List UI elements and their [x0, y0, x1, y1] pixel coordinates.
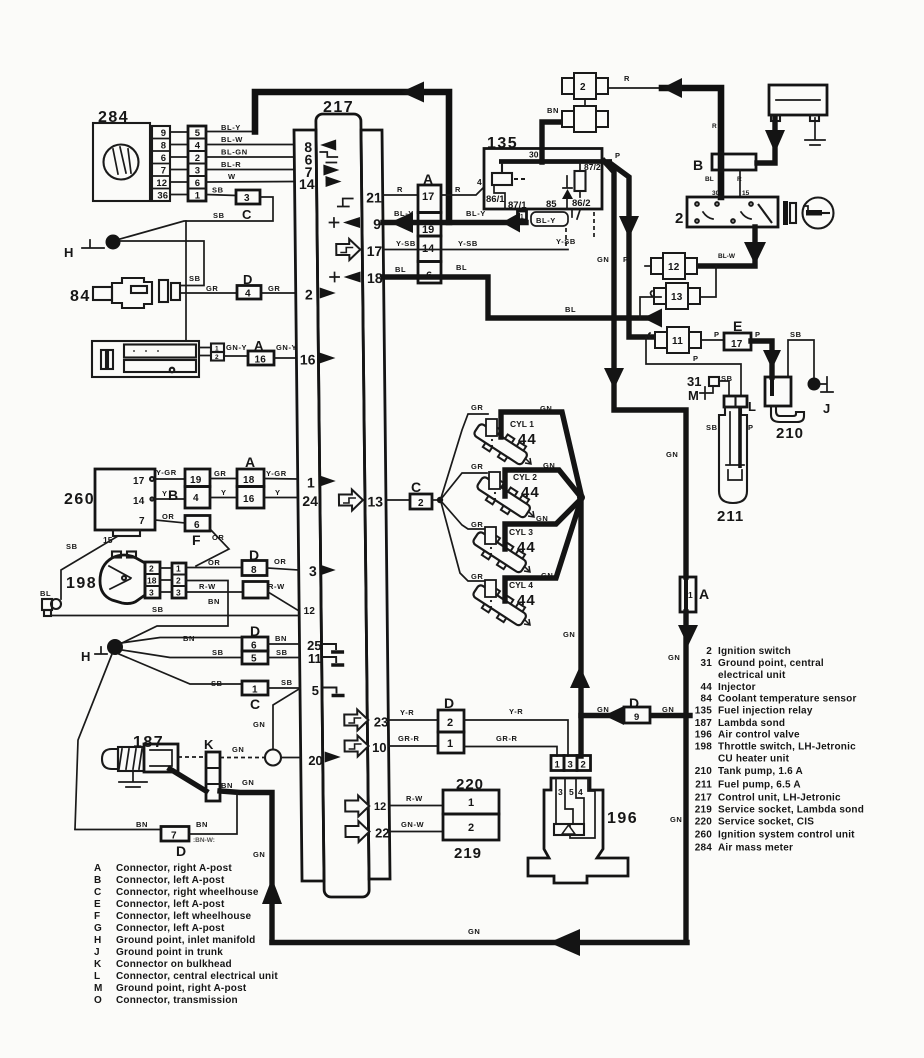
svg-text:BN: BN	[136, 820, 148, 829]
component legend right	[695, 646, 864, 854]
svg-text:P: P	[748, 423, 754, 432]
svg-text:GN: GN	[468, 927, 480, 936]
svg-text:H: H	[81, 649, 90, 664]
svg-text:SB: SB	[152, 605, 164, 614]
battery	[769, 85, 827, 121]
svg-text:1: 1	[176, 564, 181, 574]
arrow left on BL-Y top wire	[401, 82, 424, 103]
connector K on bulkhead	[204, 737, 220, 801]
svg-text:5: 5	[312, 683, 319, 698]
svg-text:BL-Y: BL-Y	[221, 123, 241, 132]
svg-text:GR-R: GR-R	[398, 734, 420, 743]
coolant temperature sensor 84 body	[93, 278, 180, 308]
svg-text:30: 30	[529, 150, 539, 160]
svg-text:13: 13	[367, 494, 383, 510]
svg-text:44: 44	[521, 484, 540, 501]
svg-text:4: 4	[195, 141, 201, 152]
wire SB M to connector L	[719, 381, 729, 396]
connector A strip right A-post	[418, 171, 441, 283]
svg-text:J: J	[823, 401, 830, 416]
svg-text:5: 5	[569, 787, 574, 797]
svg-text:84: 84	[70, 288, 91, 305]
grommet connector left	[40, 589, 61, 616]
wire Y 260 pin14	[155, 498, 185, 500]
svg-text:220: 220	[695, 817, 713, 828]
svg-text:BL: BL	[395, 265, 406, 274]
svg-text:L: L	[94, 971, 100, 982]
arrow down below fuse A	[678, 625, 698, 646]
thick wire BN lambda through K down to rail	[170, 769, 272, 942]
connector A boxes 18 16	[237, 454, 264, 508]
svg-text:219: 219	[695, 805, 713, 816]
svg-text:CYL 4: CYL 4	[509, 580, 533, 590]
injector 44 cylinder 3	[469, 527, 535, 578]
svg-text:18: 18	[367, 270, 383, 286]
svg-text:12: 12	[304, 606, 316, 617]
svg-text:11: 11	[672, 336, 683, 347]
in-line connector BN	[547, 106, 608, 132]
svg-text:OR: OR	[162, 512, 174, 521]
wire R pin21 to connector A	[383, 194, 418, 196]
connector D box GN	[624, 695, 650, 723]
svg-text:1: 1	[447, 738, 453, 750]
svg-text:OR: OR	[274, 557, 286, 566]
svg-text:Y-R: Y-R	[509, 707, 523, 716]
svg-text:7: 7	[139, 516, 145, 527]
svg-text:2: 2	[675, 210, 684, 227]
injector 44 cylinder 2	[473, 472, 539, 523]
svg-text:Tank pump, 1.6 A: Tank pump, 1.6 A	[718, 766, 803, 777]
svg-text:1: 1	[195, 191, 201, 202]
connector C box 3	[236, 190, 260, 222]
svg-text:211: 211	[695, 780, 712, 791]
svg-text:10: 10	[372, 740, 387, 755]
svg-text:BL-R: BL-R	[221, 160, 241, 169]
svg-text:9: 9	[373, 216, 381, 232]
wire H long diagonal to heater BN	[75, 654, 112, 829]
svg-text:E: E	[94, 899, 101, 910]
injector 44 cylinder 1	[470, 419, 536, 470]
arrow left at pin 9	[390, 212, 413, 233]
in-line connector 11	[649, 327, 702, 353]
svg-text:3: 3	[149, 588, 154, 598]
svg-text::BN-W:: :BN-W:	[193, 837, 215, 844]
connector D box 7	[161, 827, 189, 860]
svg-text:Fuel pump, 6.5 A: Fuel pump, 6.5 A	[718, 780, 801, 791]
wire BL-W pin8	[206, 144, 295, 146]
wire Y-GR 260 pin17 to connector B	[155, 478, 185, 480]
control unit 217 LH-Jetronic	[294, 114, 390, 897]
svg-text:1: 1	[688, 590, 693, 600]
wire GN-Y to connector A	[224, 355, 248, 357]
ground point H inlet manifold (top)	[64, 235, 121, 261]
svg-text:SB: SB	[211, 679, 223, 688]
svg-text:9: 9	[634, 712, 639, 723]
svg-text:23: 23	[374, 715, 389, 730]
svg-text:P: P	[714, 330, 720, 339]
ignition key connector	[783, 201, 796, 225]
svg-text:15: 15	[742, 190, 750, 197]
svg-text:BL: BL	[40, 589, 51, 598]
svg-text:Service socket, CIS: Service socket, CIS	[718, 817, 814, 828]
svg-text:Ground point, inlet manifold: Ground point, inlet manifold	[116, 935, 255, 946]
wire GN dashed lambda to K to node O	[178, 756, 265, 759]
svg-text:3: 3	[558, 787, 563, 797]
connector D box 8	[242, 547, 267, 576]
service socket boxes 1 2	[443, 790, 499, 840]
svg-text:BN: BN	[183, 634, 195, 643]
wire Y-R to valve connector 3	[464, 720, 568, 756]
svg-text:SB: SB	[706, 423, 718, 432]
svg-text:16: 16	[243, 494, 255, 505]
svg-text:GN: GN	[662, 705, 674, 714]
air mass meter 284 body	[93, 123, 150, 201]
svg-text:R: R	[397, 185, 403, 194]
thick wire GN from relay down	[604, 161, 686, 577]
svg-text:44: 44	[517, 592, 536, 609]
svg-text:260: 260	[64, 491, 95, 508]
svg-text:Ground point in trunk: Ground point in trunk	[116, 947, 223, 958]
air control valve 196	[528, 778, 628, 883]
svg-text:2: 2	[468, 822, 474, 834]
svg-text:3: 3	[309, 563, 317, 579]
dashed connector marks under relay	[565, 228, 567, 250]
svg-text:CYL 2: CYL 2	[513, 472, 537, 482]
svg-text:2: 2	[418, 498, 424, 509]
connector B boxes 19 4	[168, 469, 210, 508]
in-line connector 13	[651, 283, 701, 309]
connector strip 5 4 2 3 6 1	[188, 126, 206, 202]
svg-text:F: F	[94, 911, 100, 922]
svg-text:7: 7	[161, 166, 166, 177]
connector D box 4	[237, 272, 261, 300]
wire BN H to connector D6	[121, 638, 242, 644]
injector 44 cylinder 4	[469, 580, 535, 631]
svg-text:Injector: Injector	[718, 682, 756, 693]
svg-text:1: 1	[468, 797, 474, 809]
svg-text:86/2: 86/2	[572, 198, 591, 209]
svg-text:D: D	[444, 695, 454, 711]
throttle switch 198	[100, 552, 145, 604]
svg-text:8: 8	[161, 141, 166, 152]
svg-text:D: D	[243, 272, 252, 287]
svg-text:Service socket, Lambda sond: Service socket, Lambda sond	[718, 805, 864, 816]
wire R connector 2 to ignition feed	[608, 87, 660, 89]
svg-text:1: 1	[215, 346, 219, 353]
wire W pin14	[206, 181, 295, 184]
svg-text:14: 14	[299, 176, 315, 192]
svg-text:CU heater unit: CU heater unit	[718, 754, 790, 765]
fuel injection relay 135	[484, 149, 612, 212]
wire SB 260 to grommet	[61, 536, 118, 599]
svg-text:GN: GN	[597, 255, 609, 264]
svg-text:6: 6	[195, 178, 200, 189]
svg-text:W: W	[228, 172, 236, 181]
connector B left A-post	[693, 154, 756, 183]
ground battery	[805, 118, 825, 145]
wire GN-W pin 22 to service socket 219	[390, 831, 444, 833]
relay terminal box 1	[518, 211, 527, 220]
svg-text:11: 11	[308, 651, 322, 666]
svg-text:SB: SB	[281, 678, 293, 687]
svg-text:O: O	[94, 995, 102, 1006]
svg-text:1: 1	[520, 214, 524, 221]
svg-text:22: 22	[375, 826, 390, 841]
svg-text:18: 18	[147, 576, 157, 586]
wire R-W to pin 12	[268, 592, 299, 611]
svg-text:C: C	[250, 696, 260, 712]
svg-text:GN: GN	[242, 778, 254, 787]
svg-text:BL-W: BL-W	[718, 253, 736, 260]
svg-text:17: 17	[367, 243, 383, 259]
wire BL-Y pin5	[206, 131, 255, 133]
wire OR 260 pin7 to connector F	[155, 520, 185, 523]
svg-text:GN: GN	[670, 815, 682, 824]
svg-text:44: 44	[517, 539, 536, 556]
svg-text:GN: GN	[597, 705, 609, 714]
wire GN-Y to pin 16	[274, 357, 296, 359]
wire ignition second feed	[739, 170, 741, 197]
wire Y connector B to A	[210, 497, 237, 499]
svg-text:B: B	[168, 487, 178, 503]
thick wire GN junction down to valve connector	[578, 497, 583, 756]
svg-text:BL-Y: BL-Y	[536, 216, 556, 225]
ground point H inlet manifold (lower)	[81, 639, 123, 664]
wire SB long to pin 12	[52, 615, 299, 617]
wire GR-R pin 10 to connector D1	[389, 745, 438, 747]
svg-text:GR: GR	[268, 284, 280, 293]
connector C box 2	[410, 479, 432, 509]
svg-text:BN: BN	[196, 820, 208, 829]
svg-text:6: 6	[161, 153, 166, 164]
svg-text:Ignition switch: Ignition switch	[718, 646, 791, 657]
svg-text:GN: GN	[253, 850, 265, 859]
svg-text:A: A	[699, 586, 709, 602]
svg-text:B: B	[693, 157, 703, 173]
svg-text:P: P	[623, 255, 629, 264]
thick wire BL-W ignition to connector 12	[697, 227, 755, 266]
thick wire GN cyl4 to junction	[505, 503, 580, 601]
wire BN cell2 to ground H	[122, 581, 228, 644]
thick wire battery to connector B	[757, 118, 775, 163]
svg-text:GN: GN	[666, 450, 678, 459]
injector feed junction node	[577, 494, 585, 502]
svg-text:Connector, transmission: Connector, transmission	[116, 995, 238, 1006]
svg-text:GN-Y: GN-Y	[276, 343, 297, 352]
svg-text:17: 17	[133, 476, 145, 487]
svg-text:Connector, left A-post: Connector, left A-post	[116, 875, 225, 886]
svg-text:OR: OR	[212, 533, 224, 542]
svg-text:CYL 3: CYL 3	[509, 527, 533, 537]
throttle switch pin cells 2 18 3	[145, 562, 160, 598]
svg-text:1: 1	[555, 760, 561, 771]
svg-text:86/1: 86/1	[486, 194, 505, 205]
svg-text:Connector, left A-post: Connector, left A-post	[116, 899, 225, 910]
thick wire R to battery circuit	[662, 88, 721, 197]
connector L central electrical unit	[724, 396, 756, 414]
svg-text:R: R	[712, 123, 717, 130]
svg-text:GN: GN	[253, 720, 265, 729]
wire GR connector B to A	[210, 478, 237, 480]
svg-text:2: 2	[305, 287, 313, 303]
svg-text:GR: GR	[214, 469, 226, 478]
svg-text:Connector, left wheelhouse: Connector, left wheelhouse	[116, 911, 251, 922]
svg-text:196: 196	[607, 810, 638, 827]
fuse A box	[680, 577, 709, 612]
connector C box 1	[242, 681, 268, 712]
svg-text:44: 44	[518, 431, 537, 448]
svg-text:Ground point, right A-post: Ground point, right A-post	[116, 983, 247, 994]
svg-text:BN: BN	[275, 634, 287, 643]
svg-text:4: 4	[477, 177, 482, 187]
ignition key symbol	[803, 198, 834, 229]
connector cells 1 2 3	[160, 563, 186, 598]
svg-text:GR: GR	[471, 462, 483, 471]
arrow up on GN wire	[570, 666, 590, 688]
svg-text:20: 20	[308, 753, 323, 768]
svg-text:198: 198	[695, 742, 713, 753]
svg-text:C: C	[94, 887, 101, 898]
svg-text:BN: BN	[547, 106, 559, 115]
svg-text:GN-W: GN-W	[401, 820, 425, 829]
thick wire GN valve junction branch	[581, 713, 690, 718]
svg-text:Throttle switch, LH-Jetronic: Throttle switch, LH-Jetronic	[718, 742, 856, 753]
svg-text:Ground point, central: Ground point, central	[718, 658, 824, 669]
svg-text:Coolant temperature sensor: Coolant temperature sensor	[718, 694, 857, 705]
svg-text:7: 7	[171, 831, 177, 842]
thick wire BL pin 18	[384, 277, 655, 318]
svg-text:135: 135	[695, 706, 713, 717]
svg-text:GN-Y: GN-Y	[226, 343, 247, 352]
svg-text:3: 3	[176, 588, 181, 598]
radio suppression unit	[92, 341, 199, 377]
svg-text:SB: SB	[276, 648, 288, 657]
wire connector 12 to 13	[693, 266, 716, 297]
svg-text:P: P	[693, 354, 699, 363]
svg-text:M: M	[94, 983, 103, 994]
svg-text:12: 12	[668, 262, 680, 273]
svg-text:Air mass meter: Air mass meter	[718, 843, 793, 854]
svg-text:6: 6	[194, 520, 200, 531]
wire GN node O up to pin 5 wire	[273, 689, 299, 750]
svg-text:Control unit, LH-Jetronic: Control unit, LH-Jetronic	[718, 793, 841, 804]
svg-text:21: 21	[366, 190, 382, 206]
svg-text:Connector, left A-post: Connector, left A-post	[116, 923, 225, 934]
wire pin 13 to connector C	[386, 499, 410, 501]
svg-text:GR: GR	[471, 520, 483, 529]
wire P connector 11 to fuse E	[701, 339, 724, 341]
svg-text:87/2: 87/2	[584, 162, 601, 172]
svg-text:3: 3	[568, 760, 573, 771]
thick wire GN fuse to rail	[683, 612, 688, 942]
svg-text:Y: Y	[275, 488, 281, 497]
svg-text:1: 1	[252, 685, 258, 696]
thick wire P from relay down	[610, 163, 660, 337]
arrow left on R wire	[662, 78, 682, 98]
svg-text:P: P	[755, 330, 761, 339]
svg-text:BN: BN	[208, 597, 220, 606]
connector F box 6	[185, 516, 210, 549]
svg-text:2: 2	[176, 576, 181, 586]
svg-text:4: 4	[245, 289, 251, 300]
svg-text:12: 12	[156, 178, 167, 189]
wire R connector A to relay pin 4	[441, 187, 484, 195]
svg-text:BL: BL	[456, 263, 467, 272]
thick wire GN cyl3 to junction	[505, 500, 580, 549]
svg-text:Connector, central electrical: Connector, central electrical unit	[116, 971, 278, 982]
wire GR fan to injectors	[432, 499, 438, 501]
svg-text:Y-GR: Y-GR	[266, 469, 287, 478]
svg-text:4: 4	[578, 787, 583, 797]
svg-text:H: H	[64, 245, 73, 260]
thick wire BL-Y up and right	[255, 92, 449, 222]
in-line connector 2 top	[562, 73, 608, 99]
wire connector 13 to BL junction	[640, 297, 661, 318]
svg-text:2: 2	[149, 564, 154, 574]
connector A box 16	[248, 338, 274, 366]
svg-text:14: 14	[133, 496, 145, 507]
svg-text:Lambda sond: Lambda sond	[718, 718, 785, 729]
svg-text:BL-W: BL-W	[221, 135, 243, 144]
svg-text:M: M	[688, 388, 699, 403]
svg-text:1: 1	[307, 475, 315, 491]
svg-text:GR: GR	[206, 284, 218, 293]
svg-text:Y-SB: Y-SB	[396, 239, 416, 248]
wire connector 2 to connector BN	[584, 99, 586, 106]
wire SB to pin 11	[268, 657, 300, 659]
tank pump 210	[765, 377, 804, 422]
svg-text:Connector, right wheelhouse: Connector, right wheelhouse	[116, 887, 259, 898]
thick wire GN cyl2 to junction	[505, 470, 580, 496]
svg-text:8: 8	[251, 565, 257, 576]
wire SB from C3 to ground H	[113, 197, 273, 241]
wire Y-GR to pin 1	[264, 478, 297, 481]
wire BN to pin 25	[268, 643, 300, 645]
thick wire GN cyl1 to junction	[501, 412, 581, 494]
svg-text:Y: Y	[221, 488, 227, 497]
svg-text:CYL 1: CYL 1	[510, 419, 534, 429]
svg-text:SB: SB	[66, 542, 78, 551]
svg-text:BL: BL	[705, 176, 714, 183]
svg-text:13: 13	[671, 292, 683, 303]
svg-text:2: 2	[447, 717, 453, 729]
svg-text:31: 31	[687, 374, 701, 389]
wire GR-R to valve connector 1	[464, 747, 557, 757]
svg-text:17: 17	[422, 191, 434, 203]
svg-text:219: 219	[454, 845, 482, 862]
wire Y to pin 24	[264, 497, 298, 499]
arrow left on GN branch	[604, 706, 624, 725]
svg-text:GR: GR	[471, 403, 483, 412]
svg-text:GR: GR	[471, 572, 483, 581]
wire GN node O to pin 20	[281, 757, 301, 759]
svg-text:C: C	[242, 207, 252, 222]
svg-text:R-W: R-W	[268, 582, 285, 591]
svg-text:SB: SB	[790, 330, 802, 339]
svg-text:K: K	[94, 959, 102, 970]
wire GR to pin 2	[261, 292, 296, 294]
svg-text:R-W: R-W	[199, 582, 216, 591]
wire R-W pin 12 to service socket 220	[389, 805, 443, 807]
arrow left on bottom rail	[549, 929, 580, 956]
svg-text:196: 196	[695, 730, 713, 741]
svg-text:18: 18	[243, 475, 255, 486]
wire stubs 284 to connector	[170, 132, 188, 195]
wire OR to pin 3	[267, 568, 299, 570]
wire OR connector F to 198 junction	[196, 529, 229, 566]
wire SB H to connector C1	[119, 654, 242, 684]
svg-text:210: 210	[776, 425, 804, 442]
